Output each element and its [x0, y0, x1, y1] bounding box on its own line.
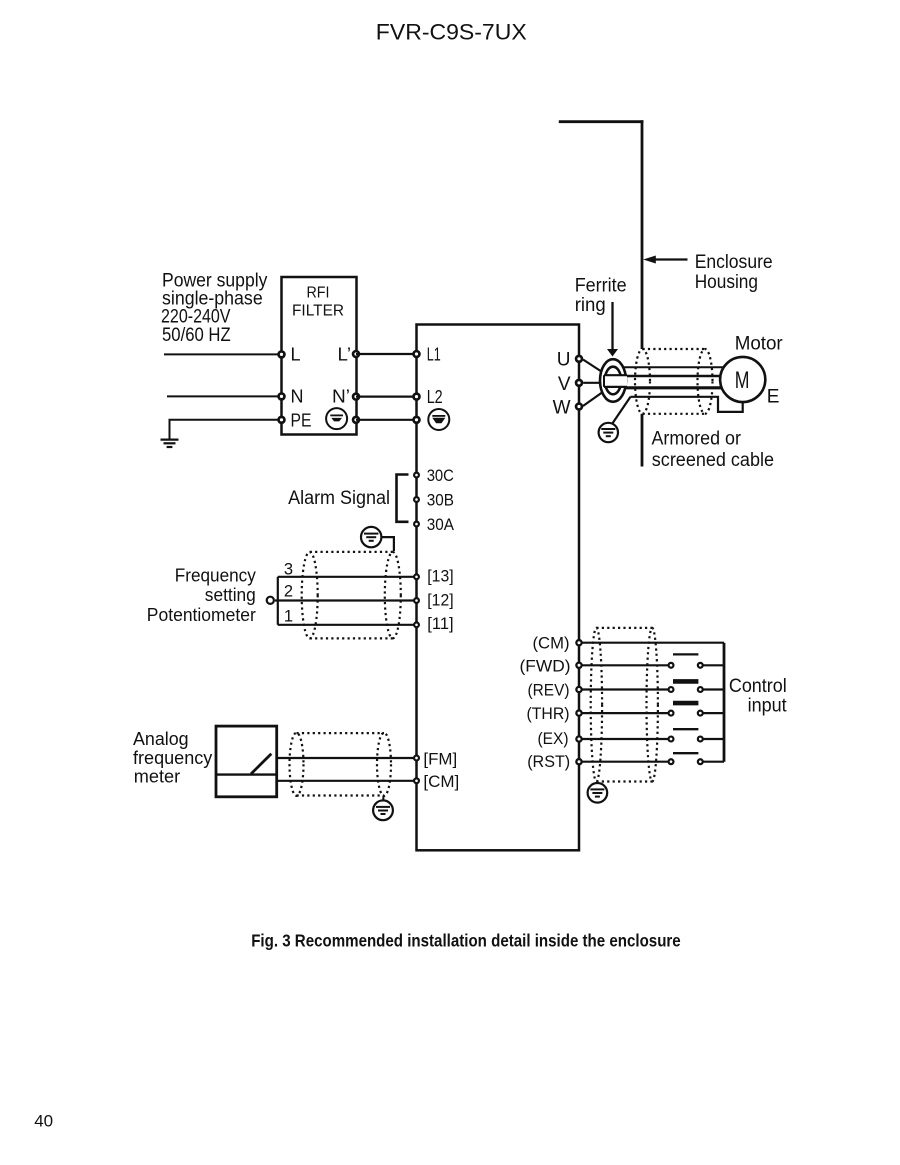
terminal [FM]: [414, 756, 419, 761]
wire N' to L2: [356, 396, 417, 398]
svg-text:40: 40: [34, 1112, 53, 1131]
svg-text:50/60 HZ: 50/60 HZ: [162, 325, 231, 346]
wire shield to ground diagonal: [611, 397, 631, 426]
terminal 30C: [414, 473, 419, 478]
terminal 30A: [414, 522, 419, 527]
svg-text:3: 3: [284, 561, 293, 579]
enclosure housing wall vertical lower segment: [641, 414, 644, 467]
wire L' to L1: [356, 353, 417, 355]
terminal U: [576, 356, 582, 362]
terminal L: [279, 351, 285, 357]
svg-text:1: 1: [284, 608, 293, 626]
control shield ground: [588, 783, 608, 803]
RFI filter ground circle: [326, 408, 347, 429]
svg-text:L’: L’: [338, 344, 352, 364]
wire THR: [579, 712, 671, 714]
svg-text:(EX): (EX): [538, 729, 569, 748]
svg-text:Potentiometer: Potentiometer: [147, 605, 256, 625]
ground earth symbol: [161, 439, 179, 441]
svg-text:input: input: [748, 696, 788, 717]
svg-text:Enclosure: Enclosure: [695, 252, 773, 273]
wire N input: [167, 395, 282, 397]
svg-text:(REV): (REV): [528, 681, 570, 700]
svg-text:Alarm Signal: Alarm Signal: [288, 488, 390, 509]
svg-text:(RST): (RST): [527, 752, 570, 771]
meter shield ground: [382, 796, 384, 802]
svg-text:meter: meter: [134, 766, 180, 787]
wire EX: [579, 738, 671, 740]
wire pot 2 to [12]: [275, 599, 417, 601]
inverter ground circle: [428, 409, 449, 430]
svg-text:Control: Control: [729, 676, 787, 697]
svg-text:Motor: Motor: [735, 333, 784, 354]
pot shield ground: [382, 537, 394, 551]
ferrite ring arrow: [611, 302, 613, 351]
svg-text:E: E: [767, 387, 780, 408]
enclosure housing wall vertical upper segment: [641, 120, 644, 349]
potentiometer left edge: [277, 577, 279, 625]
wire U to ring: [583, 360, 606, 375]
inverter box: [417, 325, 580, 851]
terminal [12]: [414, 598, 419, 603]
svg-text:RFI: RFI: [307, 285, 330, 302]
terminal W: [576, 404, 582, 410]
wire FM: [277, 757, 417, 759]
svg-text:30C: 30C: [427, 466, 454, 485]
switch levers: [673, 653, 698, 655]
ferrite ring: [600, 359, 626, 402]
terminal PE out: [353, 417, 359, 423]
analog meter box: [216, 726, 277, 797]
wire CM bus: [579, 642, 724, 644]
svg-text:ring: ring: [575, 295, 606, 316]
terminal N: [279, 393, 285, 399]
terminal L1: [414, 351, 420, 357]
svg-text:U: U: [557, 350, 571, 371]
svg-text:Frequency: Frequency: [175, 566, 256, 586]
terminal PE: [279, 417, 285, 423]
control terminals: [576, 640, 581, 645]
wire pot 1 to [11]: [278, 624, 417, 626]
svg-text:[FM]: [FM]: [423, 749, 457, 768]
svg-text:(THR): (THR): [527, 704, 570, 723]
svg-text:30B: 30B: [427, 491, 454, 510]
wire E motor earth: [631, 397, 743, 412]
wire PE to inverter ground: [356, 419, 417, 421]
wire pot 3 to [13]: [278, 576, 417, 578]
alarm bracket: [397, 475, 409, 522]
svg-text:N’: N’: [332, 387, 350, 407]
svg-text:setting: setting: [205, 585, 256, 605]
svg-text:V: V: [558, 374, 571, 395]
svg-text:30A: 30A: [427, 515, 455, 534]
terminal [CM]: [414, 778, 419, 783]
motor cable shield dashed: [635, 349, 650, 414]
svg-text:PE: PE: [291, 411, 312, 431]
svg-text:2: 2: [284, 583, 293, 601]
terminal 30B: [414, 497, 419, 502]
svg-text:FVR-C9S-7UX: FVR-C9S-7UX: [376, 20, 527, 45]
meter cable shield dashed: [290, 733, 304, 796]
svg-text:L1: L1: [427, 345, 441, 365]
svg-text:Fig. 3 Recommended installatio: Fig. 3 Recommended installation detail i…: [251, 931, 681, 951]
wire CM: [277, 780, 417, 782]
enclosure housing wall top line: [559, 120, 644, 123]
svg-text:(CM): (CM): [533, 634, 570, 653]
svg-text:W: W: [553, 398, 571, 419]
control bus vertical: [723, 643, 726, 762]
svg-text:[12]: [12]: [427, 590, 453, 609]
switch contacts: [669, 663, 674, 668]
svg-text:[11]: [11]: [427, 614, 453, 633]
terminal N': [353, 394, 359, 400]
svg-text:Armored or: Armored or: [652, 428, 742, 449]
wire RST: [579, 761, 671, 763]
potentiometer wiper circle: [267, 597, 274, 604]
svg-text:FILTER: FILTER: [292, 303, 344, 320]
svg-text:Ferrite: Ferrite: [575, 275, 627, 296]
wire W to ring: [583, 389, 607, 406]
svg-text:screened cable: screened cable: [652, 450, 774, 471]
wire V to ring: [583, 382, 601, 384]
terminal PE inverter: [414, 417, 420, 423]
wire REV: [579, 688, 671, 690]
svg-text:[CM]: [CM]: [423, 772, 459, 791]
svg-text:Housing: Housing: [695, 272, 758, 293]
svg-text:M: M: [735, 367, 750, 394]
motor cable shield ground circle: [599, 423, 618, 442]
svg-text:(FWD): (FWD): [520, 657, 571, 676]
wire W ring to motor: [618, 386, 722, 389]
wire L input: [164, 353, 282, 355]
svg-text:N: N: [291, 387, 304, 407]
svg-text:L: L: [291, 344, 301, 364]
terminal L2: [414, 394, 420, 400]
terminal L': [353, 351, 359, 357]
terminal [13]: [414, 574, 419, 579]
wire U ring to motor: [616, 366, 724, 368]
motor M: [720, 357, 765, 402]
wire V ring to motor: [618, 375, 722, 378]
pot cable shield dashed: [302, 552, 318, 638]
wire PE input: [170, 420, 282, 439]
svg-text:Analog: Analog: [133, 728, 189, 749]
RFI filter box: [282, 277, 357, 435]
terminal V: [576, 380, 582, 386]
control cable shield dashed: [591, 628, 602, 782]
svg-text:[13]: [13]: [427, 567, 453, 586]
wire FWD: [579, 664, 671, 666]
terminal [11]: [414, 622, 419, 627]
enclosure housing arrow: [654, 258, 688, 260]
svg-text:L2: L2: [427, 387, 443, 407]
